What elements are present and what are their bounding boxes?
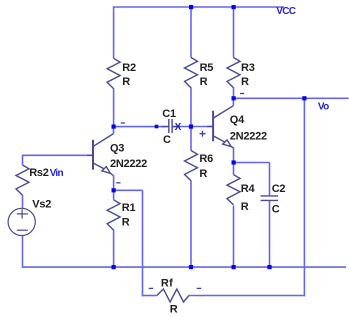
- resistor R6: [185, 151, 198, 181]
- node C1 pin square: [155, 125, 159, 129]
- svg-text:Rf: Rf: [161, 278, 173, 290]
- svg-text:R: R: [122, 217, 130, 229]
- resistor R5: [185, 58, 198, 88]
- wire R4 bottom: [233, 206, 235, 268]
- pin mark minus Q3 emitter: [116, 182, 120, 184]
- node Q4 collector: [232, 96, 236, 100]
- resistor R3: [227, 58, 240, 88]
- wire R5 top: [190, 7, 192, 58]
- svg-text:R1: R1: [122, 202, 136, 214]
- transistor Q3: [87, 154, 93, 156]
- svg-text:2N2222: 2N2222: [110, 158, 147, 170]
- wire R2 bottom: [113, 88, 115, 126]
- wire C2 bottom: [269, 201, 271, 267]
- wire R3 top: [233, 7, 235, 58]
- wire Rs2 top vertical: [22, 155, 24, 165]
- wire R5 bottom: [190, 88, 192, 127]
- node rail R4: [232, 265, 236, 269]
- voltage source Vs2: [8, 208, 35, 235]
- resistor R2: [107, 58, 120, 88]
- svg-text:R: R: [199, 168, 207, 180]
- resistor Rs2: [16, 165, 29, 195]
- wire R1 bottom: [113, 230, 115, 267]
- svg-text:Rs2: Rs2: [29, 167, 49, 179]
- node rail R1: [112, 265, 116, 269]
- svg-text:R2: R2: [122, 62, 136, 74]
- node rail C2: [267, 265, 271, 269]
- svg-text:C1: C1: [162, 108, 176, 120]
- resistor R4: [227, 175, 240, 205]
- node Vo: [302, 96, 306, 100]
- wire Rs2 to Vs2: [22, 195, 24, 209]
- node Q3 collector: [112, 125, 116, 129]
- capacitor C1 pin stubs: [162, 126, 169, 128]
- wire R3 bottom: [233, 88, 235, 99]
- transistor Q4: [207, 126, 213, 128]
- node top rail R3: [232, 5, 236, 9]
- capacitor C2 plates: [261, 195, 279, 197]
- svg-text:Q3: Q3: [110, 143, 124, 155]
- svg-text:C: C: [272, 203, 280, 215]
- svg-text:R: R: [122, 76, 130, 88]
- svg-text:R4: R4: [241, 183, 256, 195]
- svg-text:2N2222: 2N2222: [230, 131, 267, 143]
- pin mark minus Q3 collector: [121, 122, 125, 124]
- wire Q3 base: [23, 154, 94, 156]
- pin mark plus Q4 base: [200, 133, 206, 135]
- wire Q3 emitter to feedback: [114, 189, 143, 191]
- svg-text:Vs2: Vs2: [32, 199, 51, 211]
- svg-text:R: R: [170, 304, 178, 316]
- svg-text:R3: R3: [241, 62, 255, 74]
- svg-text:R: R: [200, 76, 208, 88]
- wire Vo row: [234, 97, 349, 99]
- wire Q4 emitter to C2: [234, 162, 270, 164]
- node X junction: [189, 125, 193, 129]
- wire Rf right stub: [189, 295, 305, 297]
- wire R6 bottom: [190, 181, 192, 268]
- resistor Rf: [157, 289, 189, 302]
- svg-text:X: X: [175, 122, 182, 133]
- node Q3 emitter: [112, 188, 116, 192]
- svg-text:VCC: VCC: [276, 6, 295, 17]
- wire feedback left drop: [142, 190, 144, 296]
- node Q4 emitter: [232, 160, 236, 164]
- svg-text:R6: R6: [199, 153, 213, 165]
- svg-text:Vo: Vo: [318, 102, 329, 113]
- wire Q4 emitter stub: [233, 148, 235, 163]
- wire Rf left stub: [142, 295, 157, 297]
- svg-text:C2: C2: [272, 183, 286, 195]
- pin mark minus Rf left: [149, 287, 154, 289]
- wire R2 top: [113, 6, 115, 58]
- wire C1 left: [114, 126, 168, 128]
- pin mark minus Q4 collector: [240, 93, 244, 95]
- pin mark minus Rf right: [197, 287, 202, 289]
- wire VCC rail: [114, 6, 284, 8]
- wire Vo drop to Rf: [303, 98, 305, 296]
- svg-text:R: R: [241, 76, 249, 88]
- node rail R6: [189, 265, 193, 269]
- node top rail R5: [189, 5, 193, 9]
- wire bottom rail: [23, 266, 347, 268]
- wire R6 top: [190, 127, 192, 151]
- resistor R1: [107, 200, 120, 230]
- capacitor C1 plates: [168, 119, 170, 133]
- svg-text:Q4: Q4: [230, 114, 245, 126]
- svg-text:R5: R5: [200, 62, 214, 74]
- svg-text:C: C: [163, 134, 171, 146]
- wire Vs2 to ground rail: [22, 235, 24, 268]
- wire C2 top: [269, 163, 271, 196]
- wire Q3 emitter stub: [113, 175, 115, 190]
- wire C1 right to Q4 base: [173, 126, 213, 128]
- svg-text:R: R: [241, 201, 249, 213]
- wire R1 top: [113, 190, 115, 200]
- svg-text:Vin: Vin: [50, 168, 64, 179]
- wire R4 top: [233, 163, 235, 175]
